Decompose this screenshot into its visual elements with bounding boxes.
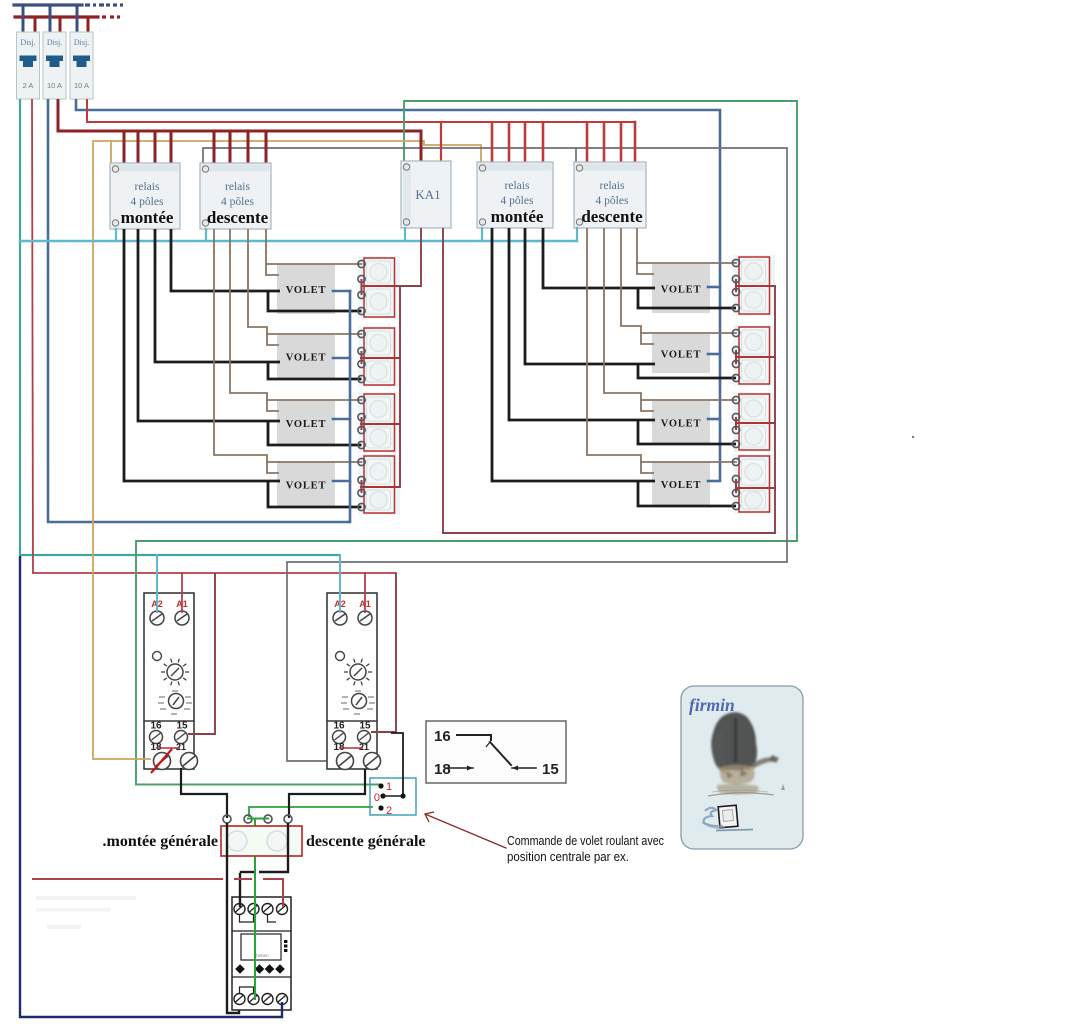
- wire red phase to time clock (left run): [33, 878, 222, 880]
- wire phase drops into relay RL3: [491, 122, 494, 163]
- wire brown to up-button volet V4: [267, 461, 362, 463]
- wire red phase from Q3: [86, 99, 88, 122]
- wire phase drops into relay RL4: [586, 122, 589, 163]
- wire red phase to contact 15 timer T2: [371, 573, 396, 732]
- clock buttons (diamonds): [235, 964, 245, 974]
- clock terminal bracket right: [268, 915, 277, 922]
- wire link between button contacts volet1: [361, 279, 363, 295]
- wire cyan stub to RL3: [481, 228, 483, 241]
- svg-text:relais: relais: [505, 180, 530, 192]
- wire cyan stub to RL4: [576, 228, 578, 241]
- contact position 0: [380, 793, 385, 798]
- svg-text:VOLET: VOLET: [286, 419, 327, 430]
- relay KA1: [401, 161, 451, 228]
- wire black montee feed volet V4: [124, 229, 280, 481]
- clock LCD display: [241, 934, 281, 960]
- wire blue neutral stub volet V7: [708, 418, 720, 421]
- button descente generale: [267, 831, 287, 851]
- contact position 2: [378, 805, 383, 810]
- wire red horizontal bus to timers A1/15: [33, 572, 396, 574]
- wire common branch right button pair: [736, 487, 775, 489]
- wire cyan stub to KA1: [404, 228, 406, 241]
- wire green drop to terminal: [248, 807, 250, 817]
- svg-text:Commande de volet roulant avec: Commande de volet roulant avec: [507, 834, 664, 848]
- sketch computer: [702, 805, 753, 830]
- wire red into clock terminal L: [263, 879, 283, 905]
- wire brown descente feed volet V5: [637, 228, 654, 274]
- svg-text:firmin: firmin: [689, 695, 735, 715]
- relay RL2 (relais 4 poles descente, left): [200, 163, 271, 229]
- wire link between button contacts volet6: [735, 350, 737, 364]
- svg-text:21: 21: [176, 742, 186, 752]
- svg-text:relais: relais: [600, 180, 625, 192]
- wire selector lever: [383, 795, 403, 797]
- wire green through clock to terminal 2: [254, 897, 256, 999]
- buttons volet V8 background tint: [733, 454, 775, 514]
- wire common riser right buttons: [774, 286, 776, 533]
- wire phase drops into relay RL2: [213, 131, 216, 164]
- terminals volet4 buttons: [358, 458, 365, 465]
- pushbutton box volet1 up: [364, 258, 395, 286]
- circuit breaker Q1 Disj. 2A: [17, 32, 40, 99]
- wire L feed to breaker Q3: [87, 17, 90, 33]
- wire blue neutral stub volet V8: [708, 480, 720, 483]
- svg-text:15: 15: [359, 721, 371, 732]
- buttons volet V6 background tint: [733, 325, 775, 386]
- wire brown to up-button volet V2: [267, 333, 362, 335]
- svg-text:VOLET: VOLET: [661, 285, 702, 296]
- wire phase bus L dashed continuation: [102, 15, 106, 18]
- wire brown descente feed volet V1: [266, 229, 279, 275]
- svg-text:VOLET: VOLET: [661, 480, 702, 491]
- svg-text:.montée générale: .montée générale: [102, 833, 218, 850]
- contact 18 line: [447, 767, 473, 769]
- wire N feed to breaker Q2: [49, 5, 52, 33]
- svg-text:15: 15: [176, 721, 188, 732]
- relay RL3 (relais 4 poles montee, right): [477, 162, 553, 228]
- wire black montee feed volet V5: [543, 228, 655, 288]
- pushbutton box volet6 up: [739, 327, 770, 357]
- buttons volet V3 background tint: [358, 392, 400, 453]
- wire cyan A2 feed timer T2: [339, 555, 341, 612]
- wire brown descente feed volet V7: [604, 228, 654, 411]
- wire red A1 feed timer T2: [364, 573, 366, 612]
- contact lever: [490, 742, 511, 765]
- clock bottom terminals: [234, 994, 245, 1005]
- pushbutton box volet6 down: [739, 357, 770, 384]
- svg-text:montée: montée: [121, 208, 174, 227]
- svg-text:VOLET: VOLET: [286, 353, 327, 364]
- wire cyan relay-coil common bus: [20, 240, 577, 242]
- wire dark red bus feeding left relays and KA1: [58, 130, 421, 133]
- volet motor box V8: [652, 461, 710, 507]
- svg-text:Disj.: Disj.: [47, 38, 62, 47]
- wire black montee feed volet V2: [155, 229, 280, 362]
- wire blue neutral stub volet V1: [333, 290, 350, 293]
- svg-text:18: 18: [434, 761, 451, 778]
- contact 16 line: [457, 734, 491, 736]
- wire blue neutral riser left column: [349, 291, 352, 522]
- wire common branch left button pair: [361, 486, 400, 488]
- wire red drop into KA1: [440, 122, 442, 161]
- svg-text:4 pôles: 4 pôles: [596, 195, 629, 207]
- wire common riser left buttons: [399, 286, 401, 487]
- wire brown descente feed volet V6: [621, 228, 654, 344]
- pushbutton box volet2 up: [364, 328, 395, 358]
- clock top terminals: [234, 904, 245, 915]
- svg-text:4 pôles: 4 pôles: [131, 196, 164, 208]
- buttons volet V1 background tint: [358, 256, 400, 319]
- wire orange into timer T1 contact 18: [93, 758, 150, 760]
- wire black to down-button volet V3: [268, 421, 362, 445]
- firmin logo card: [681, 686, 803, 849]
- wire black montee feed volet V7: [509, 228, 655, 420]
- circuit breaker Q2 Disj. 10A: [43, 32, 66, 99]
- wire orange timer1 18-contact loop to montee relays: [93, 141, 481, 758]
- pushbutton box volet3 down: [364, 424, 395, 451]
- wire black to down-button volet V7: [638, 420, 736, 444]
- selector common contact: [400, 793, 405, 798]
- clock terminal bracket left: [240, 915, 254, 922]
- wire cyan A2 feed timer T1: [156, 555, 158, 612]
- red cross mark on unused terminal: [151, 749, 172, 773]
- svg-text:VOLET: VOLET: [286, 285, 327, 296]
- wire navy neutral to clock: [20, 556, 282, 1017]
- wire cyan stub to RL1: [115, 229, 117, 241]
- svg-text:10 A: 10 A: [74, 81, 89, 90]
- svg-text:Disj.: Disj.: [20, 38, 35, 47]
- pushbutton box volet2 down: [364, 358, 395, 385]
- terminals volet5 buttons: [732, 259, 739, 266]
- stray dot: [912, 436, 914, 438]
- wire green selector position 2 to general buttons: [249, 806, 372, 808]
- wire link between button contacts volet4: [361, 480, 363, 493]
- terminals volet2 buttons: [358, 330, 365, 337]
- pushbutton box volet3 up: [364, 394, 395, 424]
- contact 15 line: [512, 767, 536, 769]
- pushbutton box montee/descente generale: [221, 826, 302, 856]
- relay RL4 (relais 4 poles descente, right): [574, 162, 646, 228]
- buttons volet V7 background tint: [733, 392, 775, 452]
- svg-text:15: 15: [542, 761, 559, 778]
- svg-text:VOLET: VOLET: [661, 350, 702, 361]
- wire brown descente feed volet V4: [214, 229, 279, 473]
- svg-text:2 A: 2 A: [23, 81, 34, 90]
- wire black descente button down: [259, 823, 288, 872]
- wire gray drop to relay RL4 coil: [575, 148, 577, 166]
- wire brown to up-button volet V5: [637, 262, 736, 264]
- buttons volet V4 background tint: [358, 454, 400, 515]
- wire brown descente feed volet V8: [587, 228, 654, 473]
- wire blue neutral stub volet V5: [708, 286, 720, 289]
- wire link between button contacts volet8: [735, 479, 737, 493]
- svg-text:4 pôles: 4 pôles: [501, 195, 534, 207]
- wire link between button contacts volet5: [735, 279, 737, 292]
- wire red from Q1 down left side: [32, 99, 33, 573]
- wire teal horizontal bus to timers A2: [20, 554, 340, 556]
- clock bottom bracket: [240, 987, 254, 993]
- svg-text:4 pôles: 4 pôles: [221, 196, 254, 208]
- wire phase drops into relay RL1: [123, 131, 126, 164]
- wire black to down-button volet V8: [638, 481, 736, 506]
- svg-text:16: 16: [434, 728, 451, 745]
- terminals volet1 buttons: [358, 260, 365, 267]
- volet motor box V5: [652, 264, 710, 313]
- wire red phase to contact 15 timer T1: [188, 573, 215, 734]
- wire black timer T2 to descente generale button: [289, 769, 365, 818]
- pushbutton box volet7 down: [739, 423, 770, 450]
- wire common branch right button pair: [736, 422, 775, 424]
- wire brown to up-button volet V6: [641, 332, 736, 334]
- buttons volet V5 background tint: [733, 255, 775, 316]
- wire cyan stub to RL2: [205, 229, 207, 241]
- wire selector common to timer T2 contact 15: [391, 733, 403, 794]
- wire brown descente feed volet V2: [248, 229, 279, 345]
- svg-text:VOLET: VOLET: [286, 481, 327, 492]
- wire neutral bus N dashed continuation: [85, 3, 90, 6]
- wire blue neutral stub volet V6: [708, 353, 720, 356]
- svg-text:descente générale: descente générale: [306, 833, 426, 850]
- wire black into clock terminal: [239, 874, 241, 905]
- sketch ground strokes: [708, 793, 774, 796]
- wire brown to up-button volet V7: [641, 399, 736, 401]
- timer relay T2 (descente generale): [327, 593, 377, 769]
- rotary dial (range setting): [169, 694, 184, 709]
- wire brown to up-button volet V3: [267, 399, 362, 401]
- wire black to down-button volet V6: [638, 364, 736, 378]
- volet motor box V2: [277, 335, 335, 378]
- indicator LED: [153, 652, 162, 661]
- wire L feed to breaker Q2: [59, 17, 62, 33]
- wire blue neutral stub volet V3: [333, 418, 350, 421]
- wire brown to up-button volet V1: [266, 263, 362, 265]
- changeover contact diagram box: [426, 721, 566, 783]
- wire brown descente feed volet V3: [230, 229, 279, 411]
- svg-text:21: 21: [359, 742, 369, 752]
- rotary dial (time setting): [350, 664, 366, 680]
- volet motor box V3: [277, 400, 335, 446]
- wire phase bus L (dark red, top): [15, 15, 98, 18]
- wire black timer T1 to montee generale button: [181, 794, 227, 818]
- wire blue neutral stub volet V2: [333, 357, 350, 360]
- volet motor box V6: [652, 334, 710, 373]
- wire dark red phase from Q2: [57, 99, 60, 131]
- svg-text:0: 0: [374, 792, 380, 804]
- wire L feed to breaker Q1: [34, 17, 37, 33]
- svg-text:Disj.: Disj.: [74, 38, 89, 47]
- wire common branch right button pair: [736, 356, 775, 358]
- timer relay T1 (montee generale): [144, 593, 194, 769]
- pushbutton box volet5 down: [739, 286, 770, 314]
- wire blue neutral from Q3 to right volet column: [76, 99, 720, 481]
- terminals volet8 buttons: [732, 458, 739, 465]
- wire orange drop to relay RL1 coil: [110, 141, 112, 163]
- wire link between button contacts volet3: [361, 417, 363, 430]
- wire black montee feed volet V3: [138, 229, 280, 421]
- terminals volet7 buttons: [732, 396, 739, 403]
- wire dark red bus end into KA1: [420, 131, 423, 161]
- wire common from KA1 to right buttons: [443, 228, 775, 533]
- selector switch detail box: [370, 778, 416, 815]
- rotary dial (time setting): [167, 664, 183, 680]
- pushbutton box volet8 down: [739, 488, 770, 512]
- svg-text:montée: montée: [491, 207, 544, 226]
- svg-text:1: 1: [386, 781, 392, 793]
- wire black into clock terminal 1 (over box): [239, 897, 241, 906]
- pushbutton box volet7 up: [739, 394, 770, 423]
- wire black to down-button volet V5: [638, 288, 736, 308]
- wire red bus feeding KA1 and right relays: [87, 121, 635, 123]
- contact position 1: [378, 783, 383, 788]
- svg-text:relais: relais: [225, 181, 250, 193]
- wire common branch right button pair: [736, 285, 775, 287]
- svg-text:KA1: KA1: [415, 187, 440, 202]
- volet motor box V1: [277, 264, 335, 314]
- wire green link between center terminals: [248, 818, 268, 820]
- wire common branch left button pair: [361, 357, 400, 359]
- rotary dial (range setting): [352, 694, 367, 709]
- svg-text:descente: descente: [207, 208, 269, 227]
- wire common from KA1 to left buttons: [361, 228, 421, 286]
- wire black montee button to clock terminal 1: [227, 823, 239, 1013]
- wire neutral bus N (blue, top): [14, 3, 82, 6]
- wire teal from Q1 (timer coil neutral): [19, 99, 21, 555]
- volet motor box V4: [277, 461, 335, 508]
- pushbutton box volet4 up: [364, 456, 395, 487]
- wire red bus end drop into relay RL4: [634, 122, 637, 163]
- wire red into clock terminal L (over box): [282, 897, 284, 906]
- wire black dash segment: [241, 871, 253, 873]
- buttons volet V2 background tint: [358, 326, 400, 387]
- wire blue neutral stub volet V4: [333, 480, 350, 483]
- wire link between button contacts volet7: [735, 417, 737, 430]
- svg-text:2: 2: [386, 805, 392, 817]
- wire black timer T1 output: [180, 769, 182, 794]
- terminals of general buttons: [223, 815, 231, 823]
- wire black montee feed volet V8: [492, 228, 655, 481]
- pushbutton box volet4 down: [364, 487, 395, 513]
- wire black to down-button volet V1: [268, 291, 362, 311]
- wire red A1 feed timer T1: [181, 573, 183, 612]
- circuit breaker Q3 Disj. 10A: [70, 32, 93, 99]
- pushbutton box volet1 down: [364, 286, 395, 317]
- wire common branch left button pair: [361, 423, 400, 425]
- annotation arrow: [425, 814, 506, 848]
- volet motor box V7: [652, 400, 710, 445]
- wire blue neutral from Q2 to left volet column: [48, 99, 350, 522]
- wire green neutral down to time clock: [254, 820, 256, 999]
- wire brown to up-button volet V8: [641, 461, 736, 463]
- wire gray timer2 18-contact loop to descente relays: [203, 148, 787, 761]
- wire black montee feed volet V6: [525, 228, 655, 364]
- pushbutton box volet8 up: [739, 456, 770, 488]
- pushbutton box volet5 up: [739, 257, 770, 286]
- wire black to down-button volet V2: [268, 362, 362, 379]
- indicator LED: [336, 652, 345, 661]
- terminals volet6 buttons: [732, 329, 739, 336]
- wire N feed to breaker Q3: [76, 5, 79, 33]
- wire red dash segment: [235, 878, 251, 880]
- terminals volet3 buttons: [358, 396, 365, 403]
- svg-text:10 A: 10 A: [47, 81, 62, 90]
- svg-text:descente: descente: [581, 207, 643, 226]
- wire black to down-button volet V4: [268, 481, 362, 507]
- svg-text:VOLET: VOLET: [661, 419, 702, 430]
- svg-text:relais: relais: [135, 181, 160, 193]
- wire N feed to breaker Q1: [22, 5, 25, 33]
- clock indicator squares: [284, 940, 287, 943]
- svg-text:position centrale par ex.: position centrale par ex.: [507, 850, 629, 864]
- time clock module (Theben): [232, 897, 291, 1010]
- relay RL1 (relais 4 poles montee, left): [110, 163, 180, 229]
- wire link between button contacts volet2: [361, 351, 363, 364]
- button montee generale: [227, 831, 247, 851]
- wire black montee feed volet V1: [171, 229, 280, 291]
- wire green KA1 coil to timer changeover contact 1: [136, 101, 797, 785]
